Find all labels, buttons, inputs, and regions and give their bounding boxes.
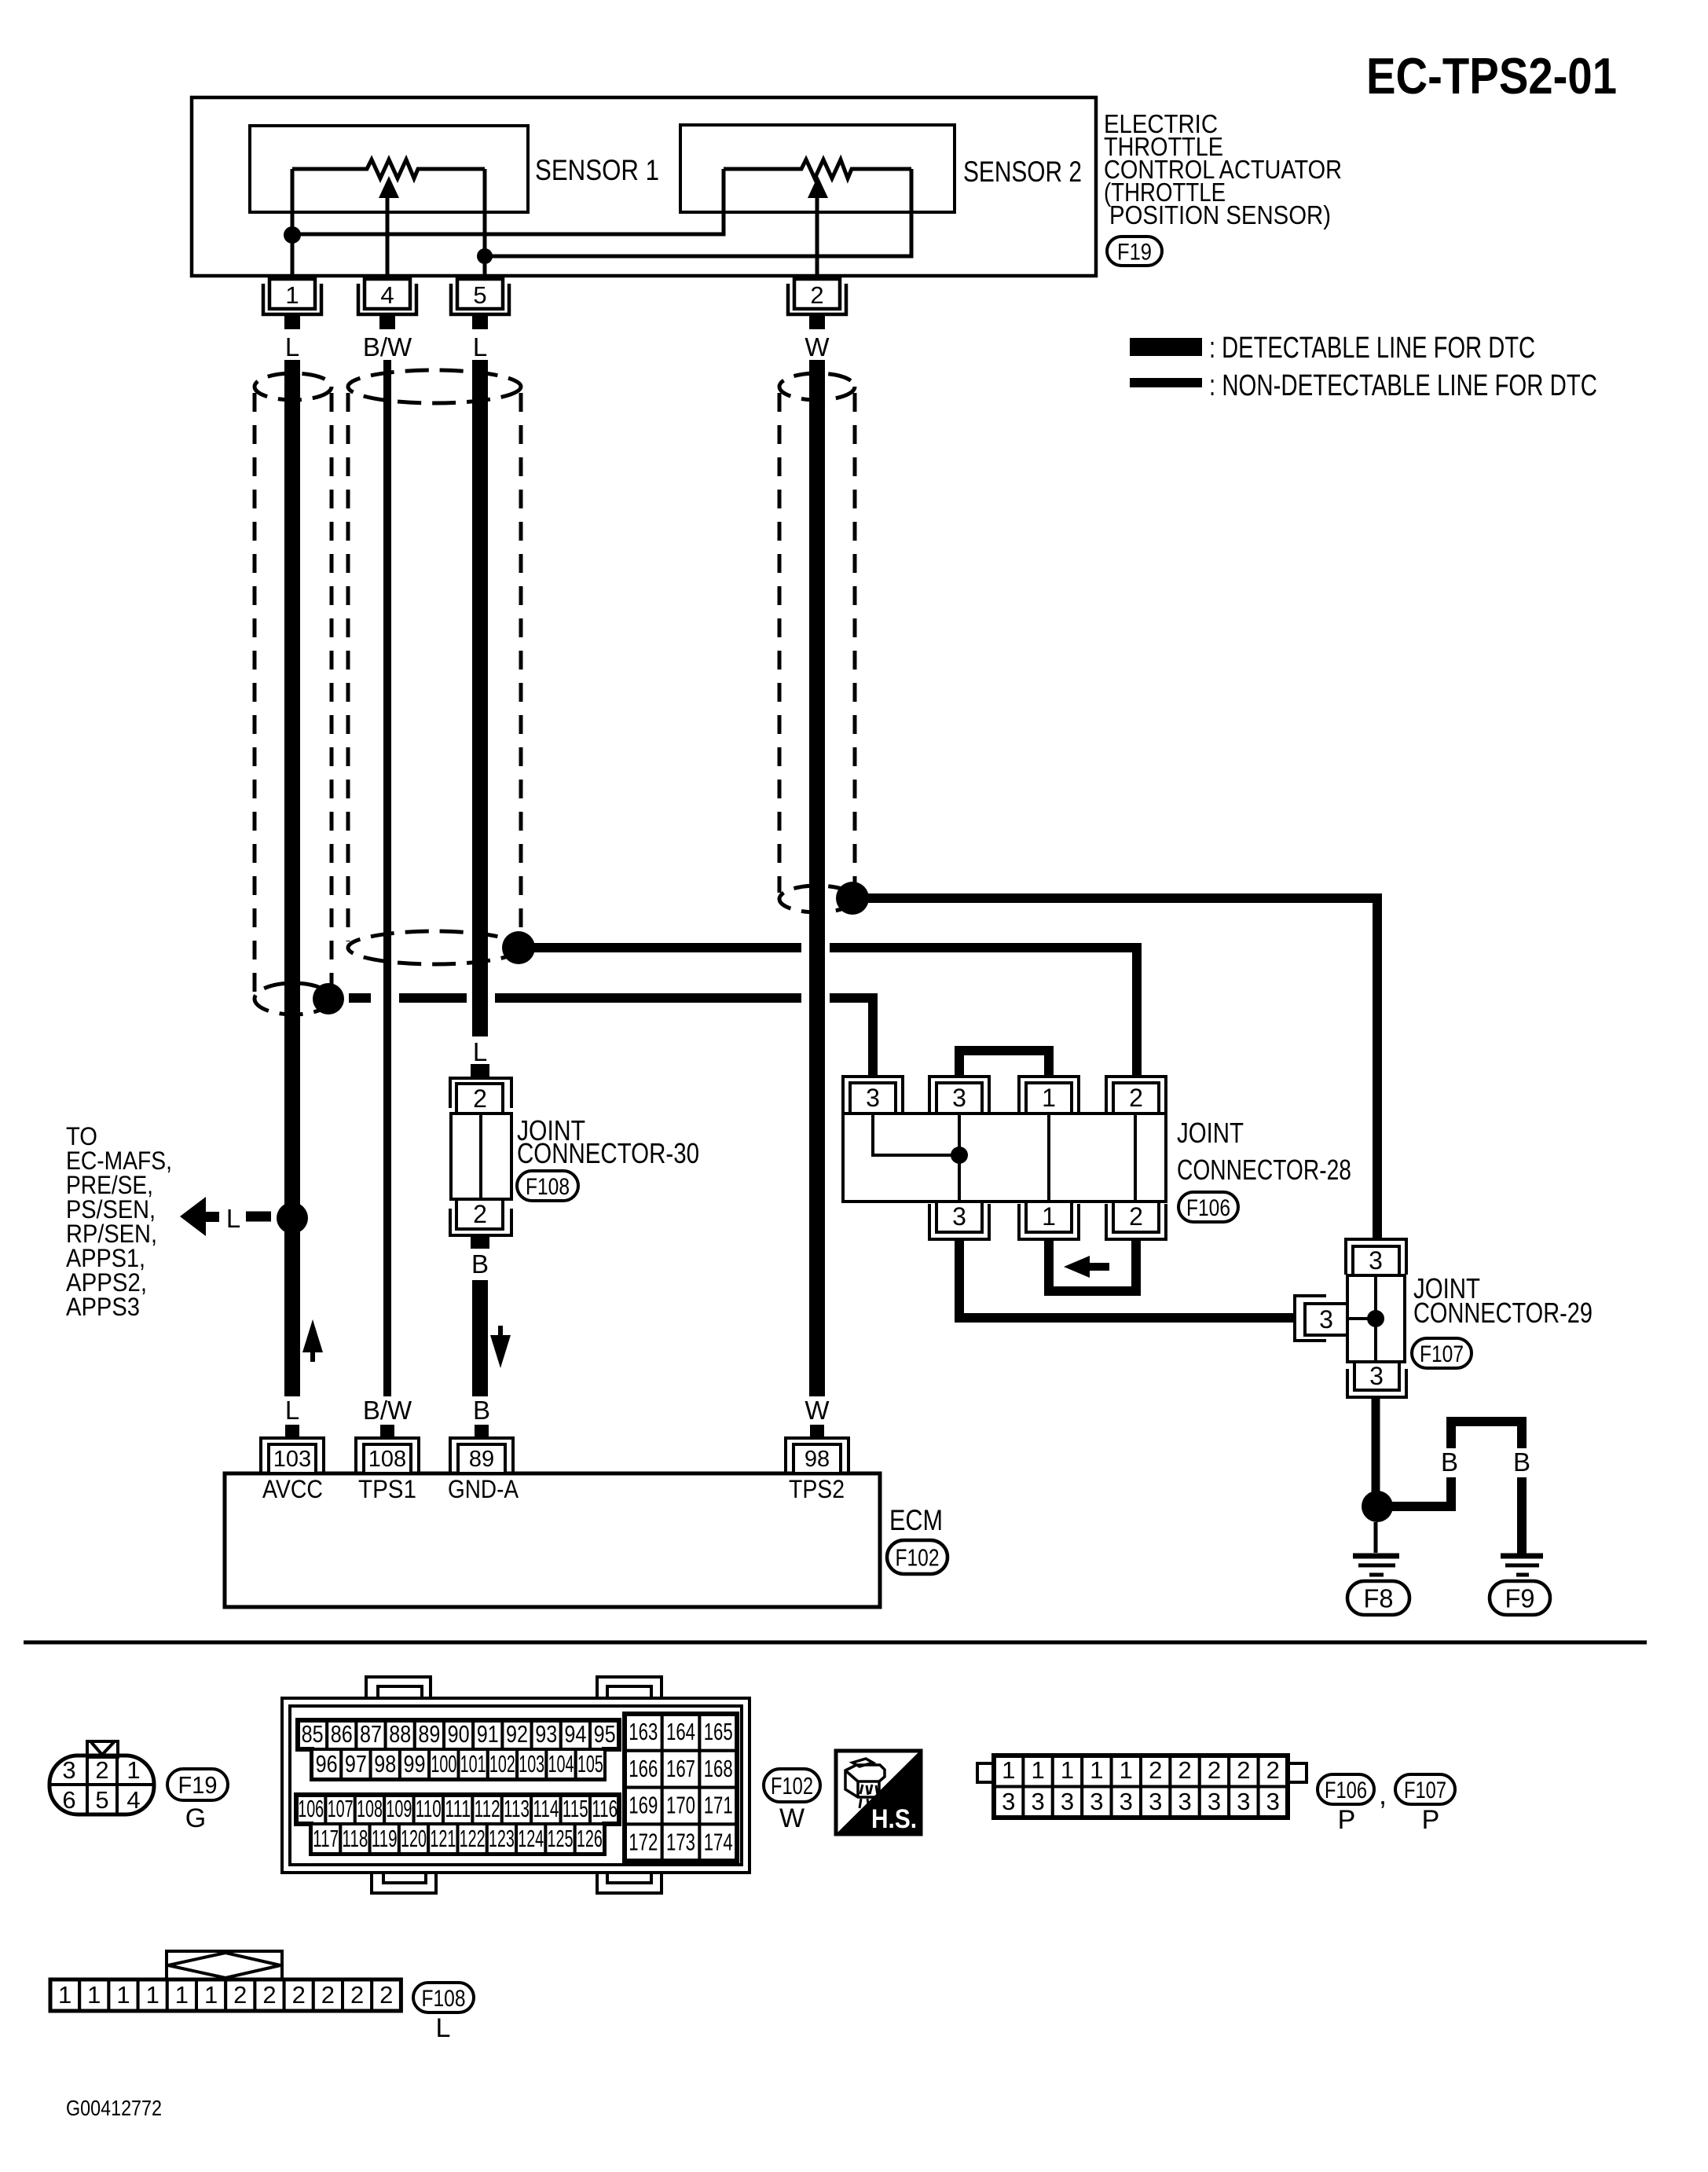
svg-text:117: 117 [313, 1825, 339, 1852]
svg-text:89: 89 [418, 1720, 440, 1748]
svg-text:3: 3 [1178, 1788, 1191, 1815]
wire sensor1 wiper to pin 4 [386, 196, 390, 280]
joint connector-29 F107 [1295, 1239, 1406, 1397]
svg-text:104: 104 [548, 1750, 574, 1778]
svg-text:114: 114 [533, 1795, 559, 1822]
wire ground node to F9 with B labels [1391, 1422, 1522, 1554]
svg-text:101: 101 [460, 1750, 486, 1778]
svg-text:112: 112 [475, 1795, 500, 1822]
svg-text:125: 125 [548, 1825, 574, 1852]
pin 108 of ECM (TPS1) [356, 1425, 419, 1473]
svg-text:168: 168 [704, 1755, 733, 1782]
svg-text:92: 92 [506, 1720, 528, 1748]
svg-text:164: 164 [666, 1718, 695, 1745]
svg-text:111: 111 [445, 1795, 471, 1822]
joint connector-28 body F106 [843, 1114, 1166, 1202]
svg-text:CONNECTOR-28: CONNECTOR-28 [1177, 1154, 1351, 1186]
svg-text:SENSOR 2: SENSOR 2 [963, 156, 1082, 188]
wire node supply: pin1 to sensor2 left terminal [292, 169, 724, 234]
pin 98 of ECM (TPS2) [786, 1425, 849, 1473]
svg-text:JOINT: JOINT [1177, 1117, 1244, 1149]
svg-text:POSITION SENSOR): POSITION SENSOR) [1109, 200, 1331, 229]
svg-text:86: 86 [331, 1720, 353, 1748]
svg-text:: DETECTABLE LINE FOR DTC: : DETECTABLE LINE FOR DTC [1209, 332, 1535, 365]
svg-text:W: W [805, 1396, 830, 1425]
svg-text:123: 123 [489, 1825, 515, 1852]
svg-text:F108: F108 [526, 1174, 570, 1200]
wire B joint connector-30 to ECM 89 (detectable) [472, 1280, 488, 1396]
svg-text:90: 90 [448, 1720, 470, 1748]
svg-text:H.S.: H.S. [871, 1804, 917, 1834]
resistor sensor 1 potentiometer track [292, 160, 485, 178]
svg-text:CONNECTOR-29: CONNECTOR-29 [1413, 1297, 1593, 1329]
svg-text:5: 5 [95, 1786, 108, 1814]
svg-text:L: L [473, 332, 487, 361]
svg-text:1: 1 [1042, 1084, 1056, 1112]
svg-text:99: 99 [404, 1750, 426, 1778]
svg-text:126: 126 [577, 1825, 603, 1852]
svg-text:W: W [805, 332, 830, 361]
svg-text:163: 163 [629, 1718, 658, 1745]
svg-text:F8: F8 [1364, 1583, 1394, 1612]
svg-text:2: 2 [1266, 1756, 1280, 1784]
svg-text:1: 1 [126, 1756, 140, 1784]
svg-text:2: 2 [350, 1981, 364, 2009]
wire node ground: pin5 to sensor2 right terminal [485, 169, 911, 256]
svg-text:3: 3 [1369, 1362, 1384, 1390]
svg-text:166: 166 [629, 1755, 658, 1782]
connector ref F107 [1412, 1338, 1472, 1368]
svg-text:103: 103 [519, 1750, 544, 1778]
svg-text:2: 2 [1237, 1756, 1250, 1784]
svg-text:B: B [1513, 1447, 1530, 1477]
wire W from pin 2 to ECM 98 (detectable) [809, 360, 825, 1396]
svg-text:EC-TPS2-01: EC-TPS2-01 [1366, 47, 1617, 105]
junction dot inside joint connector-29 [1367, 1310, 1384, 1327]
pin 2 top of joint connector-28 [1106, 1077, 1166, 1114]
svg-text:3: 3 [866, 1084, 880, 1112]
svg-text:110: 110 [416, 1795, 442, 1822]
pin 3 bottom of joint connector-28 [929, 1202, 989, 1239]
svg-text:3: 3 [1090, 1788, 1103, 1815]
svg-text:3: 3 [952, 1084, 966, 1112]
wire dash branch [246, 1212, 271, 1222]
svg-text:88: 88 [389, 1720, 411, 1748]
svg-text:3: 3 [1266, 1788, 1280, 1815]
joint connector-30 F108 [450, 1064, 511, 1249]
svg-text:L: L [473, 1037, 487, 1066]
svg-text:B/W: B/W [363, 1396, 412, 1425]
svg-text:3: 3 [1031, 1788, 1044, 1815]
svg-text:GND-A: GND-A [448, 1475, 519, 1503]
svg-text:F9: F9 [1505, 1583, 1535, 1612]
svg-text:F102: F102 [896, 1544, 940, 1572]
svg-text:4: 4 [380, 281, 394, 309]
svg-text:B: B [473, 1396, 490, 1425]
svg-text:2: 2 [473, 1200, 487, 1228]
svg-text:2: 2 [233, 1981, 247, 2009]
svg-text:2: 2 [810, 281, 823, 309]
connector ref F19 [1107, 237, 1162, 266]
svg-text:F106: F106 [1186, 1195, 1230, 1221]
pin 5 of throttle actuator [451, 279, 509, 329]
pin 89 of ECM (GND-A) [450, 1425, 513, 1473]
wire joint connector-28 pin3 to joint connector-29 [959, 1239, 1296, 1318]
wire L from pin 5 to joint connector-30 (detectable) [472, 360, 488, 1036]
svg-text:98: 98 [805, 1447, 830, 1472]
svg-text:P: P [1422, 1805, 1440, 1835]
connector ref F106 [1178, 1192, 1238, 1222]
svg-text:121: 121 [430, 1825, 456, 1852]
sensor 2 wiper arrow [808, 176, 828, 198]
svg-text:93: 93 [535, 1720, 557, 1748]
svg-text:122: 122 [460, 1825, 486, 1852]
svg-text:87: 87 [360, 1720, 382, 1748]
svg-text:169: 169 [629, 1792, 658, 1819]
junction dot shield L [313, 983, 344, 1014]
svg-text:165: 165 [704, 1718, 733, 1745]
svg-text:108: 108 [357, 1795, 383, 1822]
svg-text:171: 171 [704, 1792, 733, 1819]
svg-text:119: 119 [372, 1825, 398, 1852]
svg-text:1: 1 [58, 1981, 71, 2009]
svg-text:P: P [1338, 1805, 1356, 1835]
svg-text:89: 89 [469, 1447, 494, 1472]
legend non-detectable line [1130, 378, 1202, 387]
wire joint connector-29 to ground [1372, 1397, 1380, 1495]
svg-text:L: L [226, 1204, 240, 1233]
pin 1 of throttle actuator [263, 279, 321, 329]
wire loop top of joint connector-28 [959, 1051, 1049, 1077]
svg-text:W: W [779, 1803, 805, 1833]
wire sensor1 right terminal to pin 5 [483, 169, 487, 280]
svg-text:167: 167 [666, 1755, 695, 1782]
svg-text:2: 2 [1129, 1084, 1143, 1112]
svg-text:3: 3 [1120, 1788, 1133, 1815]
wire down to ground F8 [1374, 1522, 1378, 1553]
svg-text:97: 97 [345, 1750, 367, 1778]
svg-text:108: 108 [368, 1447, 406, 1472]
junction dot ground node [1362, 1491, 1393, 1522]
svg-text:CONNECTOR-30: CONNECTOR-30 [517, 1137, 699, 1169]
svg-text:2: 2 [262, 1981, 276, 2009]
wire loop bottom of joint connector-28 [1049, 1239, 1136, 1291]
svg-text:B/W: B/W [363, 332, 412, 361]
junction dot branch on wire L [277, 1202, 308, 1234]
arrow down on wire B [490, 1326, 511, 1368]
arrow up on wire L [302, 1319, 323, 1362]
svg-text:F102: F102 [771, 1772, 813, 1800]
svg-text:115: 115 [563, 1795, 588, 1822]
svg-text:ECM: ECM [889, 1504, 943, 1536]
svg-text:: NON-DETECTABLE LINE FOR DTC: : NON-DETECTABLE LINE FOR DTC [1209, 369, 1597, 402]
svg-text:100: 100 [431, 1750, 456, 1778]
svg-text:94: 94 [564, 1720, 586, 1748]
ground ref F9 [1490, 1581, 1550, 1615]
svg-text:98: 98 [374, 1750, 396, 1778]
svg-text:B: B [471, 1249, 489, 1279]
svg-text:91: 91 [477, 1720, 499, 1748]
svg-text:B: B [1441, 1447, 1458, 1477]
svg-text:G00412772: G00412772 [66, 2096, 162, 2120]
svg-text:F108: F108 [422, 1986, 466, 2012]
wire shield to joint connector-28 pin 3 [349, 993, 873, 1077]
svg-text:3: 3 [62, 1756, 75, 1784]
shield around wire L pin1 [255, 373, 332, 400]
svg-text:102: 102 [489, 1750, 515, 1778]
pin 1 top of joint connector-28 [1019, 1077, 1079, 1114]
svg-text:3: 3 [952, 1202, 966, 1231]
junction dot inside joint connector-28 [951, 1147, 968, 1164]
connector ref F102 view [764, 1769, 820, 1802]
wire B/W from pin 4 to ECM 108 (non-detectable) [383, 360, 391, 1396]
svg-text:3: 3 [1208, 1788, 1221, 1815]
svg-text:F107: F107 [1404, 1778, 1446, 1803]
svg-text:116: 116 [592, 1795, 618, 1822]
connector ref F107 view [1395, 1774, 1455, 1804]
ground symbol F8 [1353, 1556, 1399, 1575]
pin 103 of ECM (AVCC) [261, 1425, 324, 1473]
wire shield W to joint connector-29 pin 3 [864, 893, 1377, 1239]
sensor 1 box [250, 126, 528, 212]
svg-text:1: 1 [87, 1981, 101, 2009]
svg-text:1: 1 [175, 1981, 189, 2009]
svg-text:TPS2: TPS2 [789, 1475, 845, 1503]
svg-text:1: 1 [146, 1981, 159, 2009]
svg-text:3: 3 [1237, 1788, 1250, 1815]
svg-text:F19: F19 [178, 1771, 218, 1799]
junction dot shield B/W+L [502, 931, 535, 964]
svg-text:2: 2 [1129, 1202, 1143, 1231]
svg-text:L: L [285, 332, 299, 361]
svg-text:1: 1 [1090, 1756, 1103, 1784]
connector ref F108 [517, 1171, 578, 1201]
svg-text:2: 2 [292, 1981, 306, 2009]
pin 1 bottom of joint connector-28 [1019, 1202, 1079, 1239]
svg-text:F19: F19 [1117, 239, 1152, 265]
svg-text:6: 6 [62, 1786, 75, 1814]
svg-text:3: 3 [1369, 1246, 1383, 1275]
svg-text:118: 118 [342, 1825, 368, 1852]
svg-text:113: 113 [504, 1795, 530, 1822]
separator line [24, 1641, 1647, 1645]
wire L from pin 1 to ECM 103 (detectable) [284, 360, 300, 1396]
svg-text:170: 170 [666, 1792, 695, 1819]
node TO EC-MAFS list [66, 1122, 172, 1321]
connector view F102 (ECM) [282, 1677, 750, 1893]
junction dot ground [477, 248, 493, 264]
pin 3 top of joint connector-28 [843, 1077, 903, 1114]
arrow to EC-MAFS [180, 1197, 219, 1236]
svg-text:F107: F107 [1420, 1341, 1464, 1367]
svg-text:TPS1: TPS1 [358, 1475, 416, 1503]
pin 4 of throttle actuator [358, 279, 416, 329]
svg-text:106: 106 [298, 1795, 324, 1822]
ground ref F8 [1347, 1581, 1409, 1615]
pin 2 of throttle actuator [788, 279, 846, 329]
svg-text:5: 5 [473, 281, 486, 309]
connector ref F19 view [167, 1769, 228, 1800]
svg-text:2: 2 [473, 1084, 487, 1113]
sensor 2 box [680, 125, 955, 212]
electric throttle control actuator box F19 [192, 97, 1096, 276]
svg-text:2: 2 [95, 1756, 108, 1784]
legend detectable line [1130, 338, 1202, 356]
svg-text:105: 105 [577, 1750, 603, 1778]
shield around wire W [779, 373, 855, 400]
svg-text:2: 2 [321, 1981, 335, 2009]
svg-text:F106: F106 [1325, 1778, 1367, 1803]
arrow left in bottom loop [1064, 1256, 1109, 1278]
svg-text:1: 1 [1002, 1756, 1015, 1784]
svg-text:3: 3 [1061, 1788, 1074, 1815]
pin 2 bottom of joint connector-28 [1106, 1202, 1166, 1239]
svg-text:4: 4 [126, 1786, 140, 1814]
svg-text:2: 2 [1149, 1756, 1162, 1784]
label electric throttle control actuator [1104, 109, 1342, 229]
wire sensor1 left terminal to pin 1 [291, 169, 295, 280]
svg-text:107: 107 [328, 1795, 354, 1822]
svg-text:1: 1 [1031, 1756, 1044, 1784]
svg-text:1: 1 [1061, 1756, 1074, 1784]
svg-text:1: 1 [1120, 1756, 1133, 1784]
svg-text:174: 174 [704, 1828, 733, 1855]
svg-text:L: L [436, 2013, 451, 2043]
svg-text:120: 120 [401, 1825, 427, 1852]
svg-text:1: 1 [1042, 1202, 1056, 1231]
svg-text:172: 172 [629, 1828, 658, 1855]
sensor 1 wiper arrow [379, 176, 399, 198]
svg-text:96: 96 [316, 1750, 338, 1778]
connector view F108 [50, 1951, 401, 2011]
svg-text:1: 1 [285, 281, 299, 309]
connector ref F102 [887, 1540, 947, 1574]
connector ref F108 view [413, 1983, 474, 2012]
svg-text:SENSOR 1: SENSOR 1 [535, 154, 659, 186]
svg-text:173: 173 [666, 1828, 695, 1855]
connector view F19 [49, 1741, 154, 1814]
ECM box [225, 1473, 880, 1607]
harness symbol H.S. [836, 1751, 921, 1834]
svg-text:APPS3: APPS3 [66, 1293, 140, 1321]
svg-text:1: 1 [204, 1981, 218, 2009]
connector view F106 F107 [977, 1756, 1307, 1818]
svg-text:2: 2 [1208, 1756, 1221, 1784]
svg-text:85: 85 [302, 1720, 324, 1748]
svg-text:2: 2 [379, 1981, 393, 2009]
svg-text:2: 2 [1178, 1756, 1191, 1784]
junction dot shield W [836, 882, 869, 915]
wire shield to joint connector-28 pin 2 [531, 943, 1137, 1077]
svg-text:L: L [285, 1396, 299, 1425]
svg-text:109: 109 [386, 1795, 412, 1822]
svg-text:124: 124 [518, 1825, 544, 1852]
svg-text:G: G [185, 1803, 206, 1833]
wire sensor2 wiper to pin 2 [816, 196, 819, 280]
svg-text:3: 3 [1002, 1788, 1015, 1815]
junction dot supply [284, 226, 301, 244]
svg-text:1: 1 [116, 1981, 130, 2009]
svg-text:103: 103 [273, 1447, 311, 1472]
connector ref F106 view [1318, 1774, 1374, 1804]
svg-text:95: 95 [594, 1720, 616, 1748]
svg-text:3: 3 [1319, 1305, 1333, 1334]
svg-text:AVCC: AVCC [262, 1475, 323, 1503]
shield around wires B/W and L [348, 370, 521, 403]
resistor sensor 2 potentiometer track [724, 160, 911, 178]
pin 3 top of joint connector-28 [929, 1077, 989, 1114]
svg-text:3: 3 [1149, 1788, 1162, 1815]
ground symbol F9 [1501, 1556, 1543, 1575]
svg-text:,: , [1379, 1778, 1387, 1811]
